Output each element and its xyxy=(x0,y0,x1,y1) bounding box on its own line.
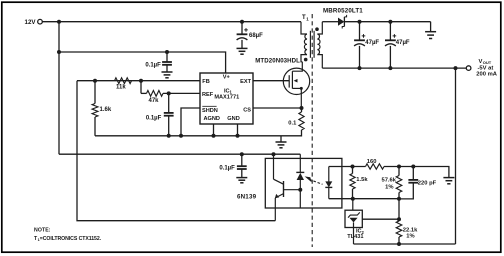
svg-text:11k: 11k xyxy=(116,85,126,91)
svg-text:FB: FB xyxy=(202,79,209,85)
svg-text:REF: REF xyxy=(202,92,214,98)
isolation boundary dashed line xyxy=(311,14,313,247)
resistor 11k xyxy=(115,78,132,91)
note text xyxy=(34,227,102,242)
svg-text:CS: CS xyxy=(243,108,251,114)
svg-text:MBR0520LT1: MBR0520LT1 xyxy=(323,7,363,14)
wire: -5V output rail xyxy=(322,67,466,69)
node: V+ branch junction xyxy=(57,50,61,54)
svg-text:47k: 47k xyxy=(149,98,160,104)
svg-text:1.6k: 1.6k xyxy=(100,107,112,113)
capacitor 47uF output #2 xyxy=(385,22,410,68)
svg-text:47µF: 47µF xyxy=(396,40,410,46)
transformer T1 primary winding xyxy=(301,22,307,62)
op-amp U2: TL431 shunt regulator xyxy=(345,199,365,244)
node: opto collector junction xyxy=(272,152,276,156)
node: CS / source / sense junction xyxy=(300,106,304,110)
wire: light arrow xyxy=(305,176,323,184)
wire: photodiode to base xyxy=(284,189,301,191)
wire: feedback node horizontal (to FB pin) xyxy=(77,80,200,82)
svg-text:0.1µF: 0.1µF xyxy=(219,166,235,172)
svg-text:6N139: 6N139 xyxy=(237,193,257,200)
wire: 12V vertical feed down left side xyxy=(58,22,60,155)
node: AGND junction xyxy=(212,134,216,138)
node: opto bypass junction xyxy=(240,152,244,156)
op-amp U1: IC1 MAX1771 controller box xyxy=(200,73,253,124)
node: REF bypass junction xyxy=(167,91,171,95)
ground (opto bypass cap) xyxy=(236,178,247,183)
node: cap2 top junction xyxy=(388,20,392,24)
svg-text:47µF: 47µF xyxy=(365,40,379,46)
transformer T1 secondary winding xyxy=(317,22,322,68)
node: 12V rail junction xyxy=(57,20,61,24)
svg-text:200 mA: 200 mA xyxy=(476,72,497,78)
svg-text:0.1µF: 0.1µF xyxy=(146,116,162,122)
ground (regulation rail) xyxy=(443,178,454,184)
resistor 1.5k xyxy=(350,167,368,199)
transformer T1 core xyxy=(310,31,314,58)
wire: secondary rectified rail xyxy=(344,21,430,23)
node: output feedback tap xyxy=(454,66,458,70)
wire: 12V top rail to transformer primary xyxy=(42,21,301,23)
node: 22.1k bottom junction xyxy=(397,242,401,246)
op-amp U3: optocoupler 6N139 box xyxy=(237,158,342,208)
svg-text:1%: 1% xyxy=(385,185,393,191)
wire: feedback sense drop to regulator rail xyxy=(455,68,457,244)
ground (secondary common) xyxy=(425,22,436,39)
capacitor 0.1uF V+ bypass xyxy=(145,50,172,72)
wire: regulation top rail to ground xyxy=(384,167,449,178)
svg-text:12V: 12V xyxy=(25,19,37,26)
transformer T1 label xyxy=(302,15,309,21)
wire: feedback return vertical from optocoupler xyxy=(77,81,275,221)
svg-text:EXT: EXT xyxy=(240,79,251,85)
svg-text:220 pF: 220 pF xyxy=(418,181,437,187)
node: TL431 ref junction xyxy=(397,217,401,221)
wire: TL431 ref xyxy=(362,218,399,220)
diode opto LED xyxy=(325,167,332,199)
wire: primary ground rail xyxy=(95,130,302,136)
resistor 22.1k 1% xyxy=(396,221,418,244)
capacitor 68uF input bulk xyxy=(237,20,264,49)
wire: LED cathode rail xyxy=(329,198,399,200)
node: cap1 bottom junction xyxy=(358,66,362,70)
node: ref-cap ground junction xyxy=(167,134,171,138)
capacitor 47uF output #1 xyxy=(354,22,379,68)
wire: AGND pin drop xyxy=(213,124,215,136)
svg-text:68µF: 68µF xyxy=(249,33,263,39)
wire: CS pin to sense resistor xyxy=(253,107,302,109)
ground (primary ground rail) xyxy=(276,136,287,148)
wire: EXT pin to MOSFET gate xyxy=(253,80,289,82)
node: FB divider junction xyxy=(139,79,143,83)
capacitor 0.1uF REF bypass xyxy=(146,93,174,135)
svg-text:OUT: OUT xyxy=(483,60,492,65)
diode opto photodiode xyxy=(296,154,304,208)
node: divider mid junction xyxy=(397,197,401,201)
svg-text:NOTE:: NOTE: xyxy=(34,227,51,233)
node: 1.5k top junction xyxy=(351,165,355,169)
node: 220pF top junction xyxy=(411,165,415,169)
svg-text:0.1µF: 0.1µF xyxy=(145,62,161,68)
wire: V+ supply rail to IC1 xyxy=(59,52,226,73)
svg-text:=COILTRONICS CTX1152.: =COILTRONICS CTX1152. xyxy=(40,236,102,242)
node: primary phase dot xyxy=(304,58,308,62)
svg-text:AGND: AGND xyxy=(204,116,220,122)
wire: LED anode rail xyxy=(329,166,366,168)
svg-text:TL431: TL431 xyxy=(347,234,363,240)
resistor 57.6k 1% xyxy=(381,167,401,199)
resistor 160 xyxy=(366,159,385,169)
svg-text:57.6k: 57.6k xyxy=(381,177,396,183)
resistor 0.1 current sense xyxy=(288,108,304,130)
svg-text:GND: GND xyxy=(227,116,239,122)
wire: SHDN pin to ground rail xyxy=(181,108,200,136)
ground (V+ bypass cap) xyxy=(162,72,173,78)
node: secondary phase dot xyxy=(315,27,319,31)
node: 1.6k top junction xyxy=(93,79,97,83)
node: shdn ground junction xyxy=(179,134,183,138)
node: base junction xyxy=(298,188,302,192)
node: 57.6k top junction xyxy=(397,165,401,169)
transistor Q1 MTD20N03HDL N-MOSFET xyxy=(255,58,309,108)
svg-text:1.5k: 1.5k xyxy=(356,177,368,183)
wire: divider mid vertical xyxy=(398,199,400,221)
svg-text:160: 160 xyxy=(367,159,377,165)
node: cap1 top junction xyxy=(358,20,362,24)
node: cap2 bottom junction xyxy=(388,66,392,70)
svg-text:1%: 1% xyxy=(406,233,414,239)
output terminal VOUT xyxy=(466,59,497,78)
wire: 12V feed to optocoupler xyxy=(59,153,300,155)
capacitor 0.1uF opto bypass xyxy=(219,154,246,177)
svg-text:MTD20N03HDL: MTD20N03HDL xyxy=(255,58,300,65)
svg-text:0.1: 0.1 xyxy=(288,120,297,126)
wire: branch down to 47k xyxy=(140,81,142,94)
wire: GND pin drop xyxy=(237,124,239,136)
svg-text:V+: V+ xyxy=(223,75,231,81)
svg-text:-5V at: -5V at xyxy=(478,65,494,71)
ground (input bulk cap) xyxy=(237,48,248,54)
resistor 1.6k xyxy=(92,81,112,136)
input terminal 12V xyxy=(25,19,43,26)
svg-text:MAX1771: MAX1771 xyxy=(214,94,239,100)
node: TL431 cathode junction xyxy=(351,197,355,201)
wire: regulator bottom rail to VOUT xyxy=(354,243,456,245)
node: GND junction xyxy=(236,134,240,138)
diode D1 MBR0520LT1 schottky xyxy=(322,7,363,28)
capacitor 220pF xyxy=(399,167,437,199)
svg-text:SHDN: SHDN xyxy=(202,108,218,114)
transistor Q2 opto phototransistor xyxy=(274,154,284,221)
resistor 47k xyxy=(141,91,200,104)
